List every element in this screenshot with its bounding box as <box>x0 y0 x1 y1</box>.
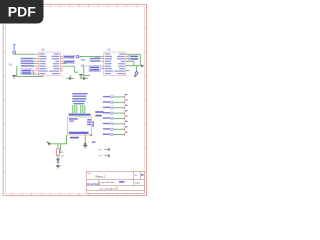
IC U5 pin names right column <box>49 53 59 74</box>
wire GND drop U6 <box>84 65 90 76</box>
small blue mark near shield <box>92 141 95 143</box>
svg-text:Rv: Rv <box>135 175 137 177</box>
sheet frame outer border <box>3 4 146 195</box>
ground symbol LED chain <box>56 165 60 168</box>
net labels left of U5 <box>21 58 34 67</box>
net label U6 right row1 <box>128 55 138 57</box>
IC U6 pin names left column <box>105 53 114 74</box>
connector J1 bottom pin stubs <box>67 135 86 136</box>
net labels right of connector box <box>95 111 103 116</box>
wire U5 right lower <box>63 64 78 73</box>
power port circle between blocks <box>76 55 82 59</box>
net labels left of U6 <box>90 58 101 62</box>
faint blue dash above M2 <box>81 59 85 60</box>
wire U6 right lower stub <box>126 70 130 72</box>
wire GND drop left block <box>17 66 44 76</box>
connector J1 inner top-left pins <box>69 118 78 120</box>
wire U6 right wrap <box>126 54 141 65</box>
resistor R9 <box>57 149 65 158</box>
net label box lower left of U6 <box>89 66 100 72</box>
power flag VCC (left block) <box>13 44 16 53</box>
LED D2 <box>56 156 59 165</box>
wire to power down <box>136 66 138 70</box>
connector J1 inner text <box>69 132 89 134</box>
wire U6 right middle <box>126 61 134 65</box>
title block <box>86 171 144 193</box>
small component lower left of U5 <box>33 70 38 74</box>
svg-text:M2: M2 <box>81 64 85 67</box>
svg-text:Sz A4: Sz A4 <box>135 182 140 185</box>
svg-text:Date: 2021-05: Date: 2021-05 <box>99 187 111 190</box>
IC U6 pin stubs left <box>101 57 104 69</box>
net label U6 right row2 <box>128 58 138 60</box>
connector J1 body <box>68 117 92 135</box>
title block texts <box>87 172 143 190</box>
connector pin numbers row <box>69 114 91 116</box>
IC U5 pin names left column <box>39 53 48 74</box>
IC U6 body <box>104 52 126 76</box>
capacitor C9 small <box>60 151 62 153</box>
connector J1 inner right pins <box>87 119 91 121</box>
wire power to U5 pin 1 <box>14 53 35 55</box>
PDF badge <box>0 0 44 24</box>
frame tick marks <box>3 4 146 195</box>
svg-text:U6: U6 <box>107 47 111 51</box>
connector J1 outside right vertical label <box>92 121 94 127</box>
net label U5 right row2 <box>63 55 75 58</box>
test point TP2 <box>98 154 109 157</box>
test point TP1 <box>98 148 109 151</box>
junction dot <box>84 143 86 145</box>
IC U5 pin stubs left <box>36 54 39 73</box>
svg-text:Sheet_1: Sheet_1 <box>95 175 106 179</box>
net label cluster above connector <box>72 93 88 104</box>
svg-text:GravTech: GravTech <box>87 182 100 186</box>
svg-text:Sh 1/1: Sh 1/1 <box>111 188 116 190</box>
wire U5 right row1 <box>63 55 72 57</box>
net label U5 right row4 <box>63 60 75 63</box>
capacitor C8 <box>80 77 88 80</box>
power symbol down <box>135 70 138 75</box>
capacitor C7 <box>66 75 74 79</box>
blue note in title block <box>119 181 124 183</box>
IC U6 pin stubs right <box>126 54 128 70</box>
junction tick right <box>141 65 143 67</box>
svg-text:PDF: PDF <box>8 3 36 19</box>
wire into U6 pin <box>79 56 101 58</box>
wires labels to U5 left pins <box>34 59 36 66</box>
ground symbol under J1 <box>83 145 87 148</box>
terminal mark left <box>47 142 51 145</box>
IC U5 pin stubs right <box>60 56 63 71</box>
wire down legs to resistor <box>58 144 61 150</box>
svg-text:U5: U5 <box>41 47 45 51</box>
svg-text:Title:: Title: <box>87 172 91 175</box>
net label box lower left <box>21 69 32 75</box>
ground symbol U6 left <box>79 75 83 78</box>
net label at J1 bottom wire <box>70 137 79 139</box>
wire bundle into connector <box>73 105 85 113</box>
ground symbol left block <box>12 75 16 78</box>
wire J1 shield to ground <box>84 136 86 144</box>
IC U6 pin names right column <box>114 53 124 74</box>
wire from J1 bottom to LED chain <box>50 136 66 144</box>
svg-text:Design: Not Simul: Design: Not Simul <box>99 181 115 184</box>
connector pin rows right column <box>103 94 128 136</box>
junction tick lower <box>134 75 136 77</box>
IC U5 body <box>38 52 60 76</box>
